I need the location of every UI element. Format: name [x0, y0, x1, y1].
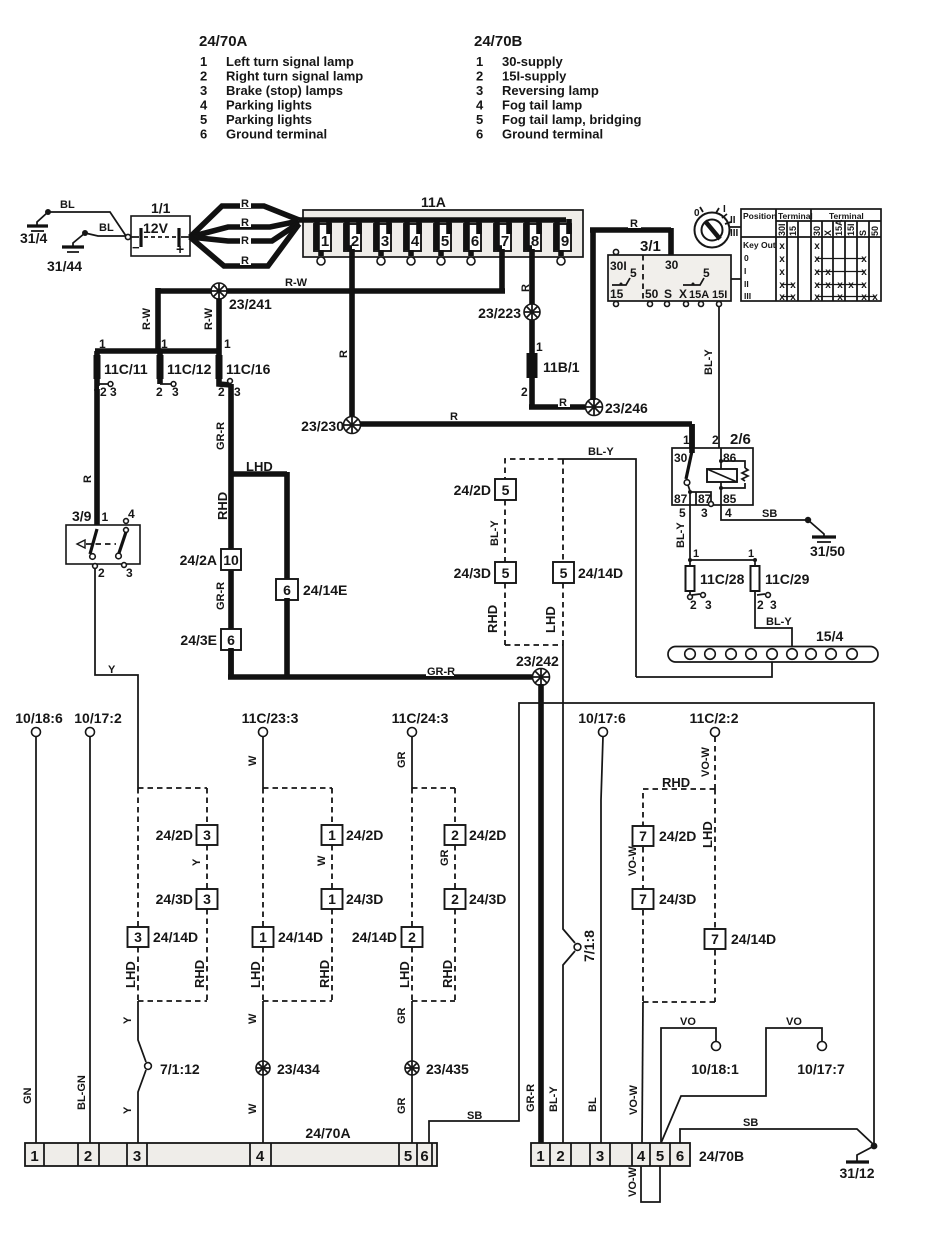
wire LHD branch — [231, 472, 287, 580]
svg-text:3: 3 — [172, 385, 179, 399]
svg-text:0: 0 — [694, 208, 700, 219]
svg-text:6: 6 — [676, 1148, 684, 1165]
svg-text:24/14D: 24/14D — [352, 929, 397, 945]
connector 24/3D pin 7 — [633, 889, 697, 909]
svg-text:15: 15 — [788, 226, 798, 236]
svg-text:1: 1 — [748, 548, 754, 560]
svg-text:2: 2 — [100, 385, 107, 399]
svg-text:5: 5 — [404, 1148, 412, 1165]
svg-text:R: R — [82, 475, 94, 483]
svg-text:4: 4 — [411, 233, 420, 250]
svg-text:BL: BL — [60, 199, 75, 211]
svg-text:8: 8 — [531, 233, 539, 250]
splice 23/230 — [301, 417, 360, 435]
dashed link bottom — [505, 644, 563, 646]
svg-text:GR-R: GR-R — [215, 422, 227, 450]
terminal strip 24/70B — [531, 1143, 744, 1166]
svg-text:24/3D: 24/3D — [659, 891, 696, 907]
svg-text:2: 2 — [200, 69, 207, 84]
svg-text:R: R — [520, 284, 532, 292]
svg-text:x: x — [814, 254, 820, 265]
svg-text:GR-R: GR-R — [427, 666, 455, 678]
svg-text:15I: 15I — [846, 223, 856, 236]
wire R relay drop — [689, 424, 695, 450]
svg-text:1: 1 — [259, 929, 267, 945]
wire R-W from fuse 7 — [499, 249, 505, 291]
svg-text:23/435: 23/435 — [426, 1061, 469, 1077]
svg-text:7/1:8: 7/1:8 — [581, 930, 597, 962]
fuse 11C/29 — [751, 560, 810, 612]
svg-text:1: 1 — [476, 54, 483, 69]
wire VO to 10/18:1 — [661, 1028, 716, 1143]
svg-text:3/1: 3/1 — [640, 238, 661, 255]
connector 24/14D pin 2 — [352, 927, 423, 947]
svg-text:5: 5 — [656, 1148, 664, 1165]
svg-text:11C/23:3: 11C/23:3 — [242, 710, 299, 726]
svg-text:10/18:6: 10/18:6 — [15, 710, 63, 726]
wire GR feed — [411, 737, 413, 789]
svg-text:87: 87 — [674, 492, 688, 506]
svg-text:0: 0 — [744, 253, 749, 263]
svg-text:2: 2 — [690, 598, 697, 612]
svg-text:11C/2:2: 11C/2:2 — [689, 710, 738, 726]
svg-text:I: I — [723, 204, 726, 215]
svg-text:31/4: 31/4 — [20, 230, 47, 246]
svg-text:5: 5 — [679, 506, 686, 520]
svg-text:RHD: RHD — [662, 775, 690, 790]
wire fuse row header — [95, 348, 221, 354]
connector 24/3D pin 1 — [322, 889, 384, 909]
svg-text:7: 7 — [639, 828, 647, 844]
fuse 11A-9 — [554, 219, 571, 265]
svg-text:2: 2 — [218, 385, 225, 399]
svg-text:10/17:7: 10/17:7 — [797, 1061, 845, 1077]
wire R to splice 23/246 — [529, 404, 585, 410]
wire BL-Y with inline connector 7/1:8 — [563, 645, 575, 1145]
wire R riser to ignition switch — [590, 228, 671, 400]
connector 24/3E pin 6 — [180, 629, 241, 650]
wire BL-Y to bus bar — [755, 591, 792, 647]
svg-text:LHD: LHD — [123, 961, 138, 988]
svg-text:6: 6 — [471, 233, 479, 250]
svg-text:1: 1 — [536, 340, 543, 354]
svg-text:85: 85 — [723, 492, 737, 506]
svg-text:x: x — [779, 254, 785, 265]
svg-text:7: 7 — [501, 233, 509, 250]
dashed harness group pin 2 — [412, 788, 455, 1001]
svg-text:R: R — [241, 235, 249, 247]
svg-text:Parking lights: Parking lights — [226, 112, 312, 127]
terminal 10/17:7 — [797, 1042, 845, 1078]
svg-text:Ground terminal: Ground terminal — [226, 127, 327, 142]
svg-text:2: 2 — [451, 891, 459, 907]
splice 23/223 — [478, 304, 540, 321]
svg-text:1: 1 — [536, 1148, 544, 1165]
svg-text:LHD: LHD — [248, 961, 263, 988]
svg-text:23/241: 23/241 — [229, 296, 272, 312]
svg-text:x: x — [848, 280, 854, 291]
svg-text:3: 3 — [134, 929, 142, 945]
svg-text:W: W — [247, 755, 259, 766]
svg-text:VO-W: VO-W — [627, 845, 639, 876]
svg-text:1: 1 — [30, 1148, 38, 1165]
svg-text:BL: BL — [587, 1097, 599, 1112]
svg-text:24/3D: 24/3D — [156, 891, 193, 907]
svg-text:24/2D: 24/2D — [346, 827, 383, 843]
wire GN — [35, 737, 37, 1144]
svg-text:3: 3 — [381, 233, 389, 250]
fuse 11C/11 — [94, 351, 148, 399]
svg-text:1: 1 — [328, 827, 336, 843]
wire R-W drop from splice — [216, 299, 222, 351]
svg-text:2: 2 — [408, 929, 416, 945]
svg-text:2: 2 — [351, 233, 359, 250]
svg-text:x: x — [790, 292, 796, 303]
svg-text:24/3D: 24/3D — [454, 565, 491, 581]
fuse 11C/12 — [156, 351, 212, 399]
wire R fan 4 — [190, 224, 299, 266]
svg-text:31/50: 31/50 — [810, 543, 845, 559]
svg-text:BL: BL — [99, 222, 114, 234]
svg-text:10: 10 — [223, 552, 239, 568]
svg-text:3: 3 — [200, 83, 207, 98]
wire BL-Y from terminal 15I — [718, 306, 720, 448]
svg-text:R: R — [630, 218, 638, 230]
svg-text:GR: GR — [439, 849, 451, 866]
svg-text:4: 4 — [256, 1148, 265, 1165]
wire R horizontal to relay — [360, 421, 692, 427]
wire R fan 1 — [190, 206, 299, 237]
svg-text:BL-Y: BL-Y — [675, 522, 687, 548]
svg-text:23/246: 23/246 — [605, 400, 648, 416]
svg-text:6: 6 — [200, 127, 207, 142]
svg-text:x: x — [837, 280, 843, 291]
svg-text:III: III — [744, 291, 751, 301]
fuse box 11A — [299, 194, 583, 257]
connector 24/2D pin 2 — [445, 825, 507, 845]
svg-text:2: 2 — [757, 598, 764, 612]
svg-text:1/1: 1/1 — [151, 200, 171, 216]
wire W with splice 23/434 — [262, 1001, 264, 1143]
svg-text:15: 15 — [610, 287, 624, 301]
wire BL battery feed 1 — [48, 212, 126, 236]
svg-text:R: R — [450, 411, 458, 423]
svg-text:1: 1 — [321, 233, 329, 250]
svg-text:Position: Position — [743, 211, 777, 221]
svg-text:24/14E: 24/14E — [303, 582, 347, 598]
svg-text:Key Out: Key Out — [743, 240, 776, 250]
svg-text:11C/16: 11C/16 — [226, 361, 271, 377]
svg-text:24/14D: 24/14D — [731, 931, 776, 947]
svg-text:S: S — [664, 287, 672, 301]
ground 31/4 — [20, 209, 51, 246]
ignition key icon — [694, 204, 741, 279]
ground 31/44 — [47, 230, 88, 274]
connector 24/2D pin 3 — [156, 825, 218, 845]
svg-text:x: x — [825, 267, 831, 278]
dashed harness group pin 3 — [138, 788, 207, 1001]
svg-text:12V: 12V — [143, 220, 169, 236]
connector 24/3D pin 2 — [445, 889, 507, 909]
wire R from fuse 8 — [529, 249, 535, 354]
svg-text:24/2D: 24/2D — [454, 482, 491, 498]
svg-text:X: X — [679, 287, 687, 301]
fuse 11B/1 — [521, 340, 580, 407]
svg-text:11A: 11A — [421, 194, 446, 210]
terminal 10/17:6 — [578, 710, 626, 737]
svg-text:1: 1 — [693, 548, 699, 560]
wire GR with splice 23/435 — [411, 1001, 413, 1143]
svg-text:BL-Y: BL-Y — [766, 616, 792, 628]
svg-text:1: 1 — [102, 510, 109, 524]
svg-text:5: 5 — [200, 112, 207, 127]
wire BL-GN — [89, 737, 91, 1144]
svg-text:x: x — [814, 267, 820, 278]
wire R-W horizontal bus — [158, 288, 505, 294]
svg-text:1: 1 — [99, 337, 106, 351]
fuse 11A-2 — [344, 219, 361, 251]
svg-text:Right turn signal lamp: Right turn signal lamp — [226, 69, 363, 84]
svg-text:Y: Y — [122, 1106, 134, 1114]
svg-text:5: 5 — [703, 266, 710, 280]
fuse 11A-6 — [464, 219, 481, 265]
svg-text:x: x — [779, 292, 785, 303]
svg-text:6: 6 — [420, 1148, 428, 1165]
svg-text:11C/29: 11C/29 — [765, 571, 810, 587]
svg-text:1: 1 — [224, 337, 231, 351]
connector 24/14E pin 6 — [276, 579, 347, 600]
svg-text:11C/24:3: 11C/24:3 — [392, 710, 449, 726]
svg-text:23/434: 23/434 — [277, 1061, 320, 1077]
fuse 11A-3 — [374, 219, 391, 265]
svg-text:4: 4 — [725, 506, 732, 520]
svg-text:24/2D: 24/2D — [469, 827, 506, 843]
svg-text:GR: GR — [396, 1007, 408, 1024]
svg-text:III: III — [730, 228, 739, 239]
fuse 11A-8 — [524, 219, 541, 251]
svg-text:BL-Y: BL-Y — [548, 1086, 560, 1112]
svg-text:2: 2 — [556, 1148, 564, 1165]
svg-text:5: 5 — [502, 565, 510, 581]
wire GR-R to 24/70B pin 1 — [538, 684, 544, 1145]
wire SB from 24/70B pin 6 — [680, 1129, 874, 1145]
svg-text:31/44: 31/44 — [47, 258, 82, 274]
svg-text:Parking lights: Parking lights — [226, 98, 312, 113]
svg-text:24/14D: 24/14D — [578, 565, 623, 581]
svg-text:1: 1 — [161, 337, 168, 351]
terminal 11C/2:2 — [689, 710, 738, 737]
svg-text:30: 30 — [812, 226, 822, 236]
legend 24/70A list — [200, 54, 363, 142]
svg-text:x: x — [814, 292, 820, 303]
svg-text:+: + — [176, 241, 184, 257]
connector 24/2A pin 10 — [180, 549, 241, 570]
svg-text:RHD: RHD — [317, 960, 332, 988]
fuse 11A-7 — [494, 219, 511, 251]
svg-text:5: 5 — [560, 565, 568, 581]
connector 24/3D pin 3 — [156, 889, 218, 909]
wire R fan 3 — [190, 223, 299, 241]
dashed harness group pin 1 — [263, 788, 332, 1001]
wire VO-W dashed feed — [714, 737, 716, 790]
svg-text:30: 30 — [674, 451, 688, 465]
svg-text:R: R — [338, 350, 350, 358]
wire fog lamp fuse feed — [690, 559, 755, 561]
svg-text:1: 1 — [200, 54, 207, 69]
svg-text:3: 3 — [203, 891, 211, 907]
svg-text:SB: SB — [467, 1110, 482, 1122]
svg-text:x: x — [779, 267, 785, 278]
svg-text:10/17:6: 10/17:6 — [578, 710, 626, 726]
svg-text:GN: GN — [22, 1087, 34, 1104]
wire GR-R main drop — [228, 384, 234, 677]
svg-text:W: W — [247, 1013, 259, 1024]
svg-text:24/14D: 24/14D — [278, 929, 323, 945]
svg-text:3: 3 — [133, 1148, 141, 1165]
svg-text:7: 7 — [639, 891, 647, 907]
svg-text:10/17:2: 10/17:2 — [74, 710, 122, 726]
switch 3/9 — [66, 507, 140, 580]
svg-text:3: 3 — [476, 83, 483, 98]
svg-text:BL-Y: BL-Y — [489, 520, 501, 546]
svg-text:5: 5 — [502, 482, 510, 498]
svg-text:15I: 15I — [712, 289, 727, 301]
svg-text:x: x — [814, 280, 820, 291]
dashed harness group pin 7 — [643, 789, 715, 1002]
terminal 11C/24:3 — [392, 710, 449, 737]
svg-text:5: 5 — [441, 233, 449, 250]
svg-text:R-W: R-W — [203, 307, 215, 330]
splice 23/246 — [586, 399, 649, 417]
svg-text:7/1:12: 7/1:12 — [160, 1061, 200, 1077]
terminal 11C/23:3 — [242, 710, 299, 737]
svg-text:3: 3 — [203, 827, 211, 843]
svg-text:x: x — [872, 292, 878, 303]
splice 23/241 — [211, 283, 272, 312]
connector 24/14D pin 5 — [553, 562, 623, 583]
svg-text:4: 4 — [637, 1148, 646, 1165]
svg-text:24/70B: 24/70B — [699, 1148, 744, 1164]
svg-text:2: 2 — [712, 433, 719, 447]
svg-text:6: 6 — [476, 127, 483, 142]
wire BL battery feed 2 — [85, 233, 126, 236]
battery 1/1 — [125, 200, 190, 257]
svg-text:24/3D: 24/3D — [346, 891, 383, 907]
wire Y with connector 7/1:12 — [138, 1001, 146, 1143]
svg-text:2: 2 — [156, 385, 163, 399]
svg-text:10/18:1: 10/18:1 — [691, 1061, 739, 1077]
svg-text:BL-Y: BL-Y — [588, 446, 614, 458]
svg-text:SB: SB — [762, 508, 777, 520]
svg-text:R: R — [241, 198, 249, 210]
svg-text:2: 2 — [84, 1148, 92, 1165]
svg-text:2: 2 — [476, 69, 483, 84]
wire BL-Y from relay 87 — [689, 505, 691, 560]
svg-text:x: x — [837, 292, 843, 303]
svg-text:RHD: RHD — [192, 960, 207, 988]
connector 24/2D pin 1 — [322, 825, 384, 845]
svg-text:23/230: 23/230 — [301, 418, 344, 434]
svg-text:SB: SB — [743, 1117, 758, 1129]
connector 24/3D pin 5 — [454, 562, 516, 583]
dashed link top — [505, 459, 563, 479]
wire VO-W to 24/70B pin 4 — [642, 1002, 643, 1143]
svg-text:3: 3 — [701, 506, 708, 520]
svg-text:R: R — [241, 255, 249, 267]
svg-text:24/2D: 24/2D — [659, 828, 696, 844]
connector 24/14D pin 3 — [128, 927, 199, 947]
svg-text:24/3E: 24/3E — [180, 632, 217, 648]
svg-text:30-supply: 30-supply — [502, 54, 563, 69]
svg-text:50: 50 — [645, 287, 659, 301]
svg-text:GR: GR — [396, 1097, 408, 1114]
svg-text:30I: 30I — [777, 223, 787, 236]
svg-text:R-W: R-W — [141, 307, 153, 330]
svg-text:5: 5 — [476, 112, 483, 127]
svg-text:x: x — [861, 267, 867, 278]
svg-text:3: 3 — [705, 598, 712, 612]
svg-text:6: 6 — [227, 632, 235, 648]
bus bar 15/4 — [668, 628, 878, 662]
svg-text:LHD: LHD — [543, 606, 558, 633]
svg-text:2: 2 — [98, 566, 105, 580]
svg-text:GR-R: GR-R — [525, 1084, 537, 1112]
terminal 10/18:1 — [691, 1042, 739, 1078]
svg-text:Brake (stop) lamps: Brake (stop) lamps — [226, 83, 343, 98]
svg-text:11C/12: 11C/12 — [167, 361, 212, 377]
splice 23/242 — [516, 653, 559, 686]
connector 24/2D pin 5 — [454, 479, 516, 500]
svg-text:W: W — [247, 1103, 259, 1114]
svg-text:x: x — [779, 280, 785, 291]
fuse 11C/16 — [216, 351, 271, 399]
svg-text:Fog tail lamp, bridging: Fog tail lamp, bridging — [502, 112, 641, 127]
svg-text:W: W — [316, 855, 328, 866]
svg-text:5: 5 — [630, 266, 637, 280]
svg-text:3: 3 — [596, 1148, 604, 1165]
ignition position table — [741, 209, 881, 303]
svg-text:11C/28: 11C/28 — [700, 571, 745, 587]
svg-text:2/6: 2/6 — [730, 431, 751, 448]
svg-text:X: X — [823, 230, 833, 236]
svg-text:RHD: RHD — [215, 492, 230, 520]
svg-text:LHD: LHD — [246, 459, 273, 474]
svg-text:BL-Y: BL-Y — [703, 349, 715, 375]
svg-text:4: 4 — [200, 98, 208, 113]
fuse 11A-1 — [314, 219, 331, 265]
wire BL-Y riser — [563, 459, 636, 677]
svg-text:LHD: LHD — [700, 821, 715, 848]
svg-text:Terminal: Terminal — [778, 211, 813, 221]
svg-text:x: x — [861, 292, 867, 303]
svg-text:7: 7 — [711, 931, 719, 947]
wire W feed — [262, 737, 264, 789]
wire Y from switch — [95, 568, 138, 788]
svg-text:4: 4 — [128, 507, 135, 521]
svg-text:24/2A: 24/2A — [180, 552, 217, 568]
terminal 10/17:2 — [74, 710, 122, 737]
connector 24/2D pin 7 — [633, 826, 697, 846]
svg-text:R-W: R-W — [285, 277, 308, 289]
svg-text:15A: 15A — [689, 289, 709, 301]
relay 2/6 — [672, 424, 753, 520]
svg-text:86: 86 — [723, 451, 737, 465]
svg-text:x: x — [861, 280, 867, 291]
terminal strip 24/70A — [25, 1125, 437, 1166]
ground 31/12 — [839, 1143, 877, 1181]
wire SB from 24/70A pin 6 — [429, 703, 874, 1143]
wire SB from relay 85 — [721, 505, 806, 520]
